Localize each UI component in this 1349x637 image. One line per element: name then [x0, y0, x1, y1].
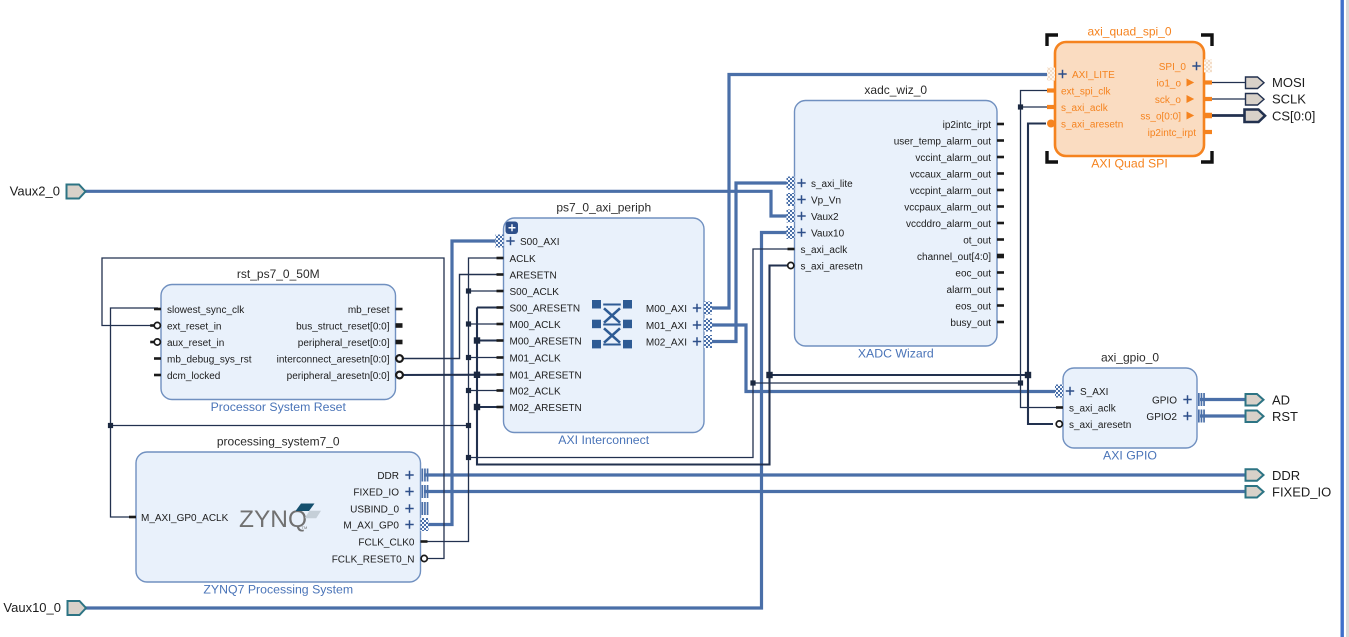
pin M01_ACLK — [497, 356, 504, 359]
wire FCLK_CLK0 branch M00_ACLK — [469, 323, 501, 325]
pin vccaux_alarm_out — [997, 172, 1004, 175]
svg-text:M02_ACLK: M02_ACLK — [510, 386, 561, 397]
svg-text:s_axi_aresetn: s_axi_aresetn — [801, 261, 863, 272]
wire io1_o to MOSI — [1212, 82, 1246, 84]
svg-text:FCLK_RESET0_N: FCLK_RESET0_N — [332, 554, 415, 565]
svg-text:DDR: DDR — [1272, 468, 1300, 483]
pin S00_ACLK — [497, 290, 504, 293]
svg-text:SCLK: SCLK — [1272, 92, 1306, 107]
wire peripheral_aresetn main — [392, 374, 500, 376]
wire M00_AXI to AXI_LITE bus — [707, 75, 1050, 309]
block xadc_wiz_0 XADC Wizard — [795, 101, 998, 347]
svg-text:peripheral_aresetn[0:0]: peripheral_aresetn[0:0] — [287, 371, 390, 382]
svg-text:M01_ARESETN: M01_ARESETN — [510, 370, 582, 381]
pin busy_out — [997, 321, 1004, 324]
svg-text:vccpaux_alarm_out: vccpaux_alarm_out — [904, 202, 991, 213]
svg-text:M01_ACLK: M01_ACLK — [510, 353, 561, 364]
svg-text:Vaux10: Vaux10 — [811, 228, 845, 239]
pin M01_AXI — [704, 319, 712, 332]
pin ARESETN — [497, 273, 504, 276]
pin Vaux2 — [787, 210, 795, 223]
wire interconnect_aresetn net — [392, 275, 500, 359]
svg-text:M00_ARESETN: M00_ARESETN — [510, 336, 582, 347]
wire ss_o to CS — [1212, 114, 1244, 117]
block ps7_0_axi_periph AXI Interconnect — [504, 218, 705, 433]
wire peripheral_aresetn branch M02_ARESETN — [477, 406, 500, 408]
pin mb_reset — [396, 308, 403, 311]
svg-text:M02_AXI: M02_AXI — [646, 337, 687, 348]
wire GPIO to AD bus — [1200, 398, 1246, 401]
pin AXI_LITE — [1047, 68, 1055, 81]
svg-text:s_axi_lite: s_axi_lite — [811, 179, 853, 190]
svg-text:FIXED_IO: FIXED_IO — [353, 487, 399, 498]
wire FCLK_CLK0 branch M01_ACLK — [469, 357, 501, 359]
svg-text:ext_reset_in: ext_reset_in — [167, 321, 221, 332]
wire Vaux2_0 net — [84, 191, 795, 216]
wire FCLK_CLK0 branch to gpio and spi clocks — [753, 91, 1048, 384]
pin M01_ARESETN — [497, 373, 504, 376]
svg-text:ps7_0_axi_periph: ps7_0_axi_periph — [556, 201, 651, 215]
svg-text:vccaux_alarm_out: vccaux_alarm_out — [910, 169, 991, 180]
svg-text:s_axi_aresetn: s_axi_aresetn — [1069, 420, 1131, 431]
svg-text:Vaux2_0: Vaux2_0 — [10, 184, 60, 199]
pin mb_debug_sys_rst — [154, 357, 161, 360]
wire peripheral_aresetn branch M00_ARESETN — [477, 339, 500, 341]
svg-text:rst_ps7_0_50M: rst_ps7_0_50M — [237, 267, 320, 281]
svg-text:CS[0:0]: CS[0:0] — [1272, 109, 1315, 124]
pin slowest_sync_clk — [154, 308, 161, 311]
pin DDR — [422, 469, 424, 482]
svg-text:FIXED_IO: FIXED_IO — [1272, 484, 1331, 499]
selection corner markers — [1047, 35, 1058, 46]
port SCLK — [1246, 94, 1265, 106]
pin ext_reset_in — [150, 324, 154, 327]
svg-text:AXI GPIO: AXI GPIO — [1103, 449, 1157, 463]
pin M00_AXI — [704, 302, 712, 315]
crossbar icon — [592, 300, 601, 309]
wire sck_o to SCLK — [1212, 98, 1246, 100]
pin s_axi_aresetn — [788, 262, 794, 268]
port Vaux10_0 — [68, 601, 87, 615]
wire FCLK_CLK0 branch M02_ACLK — [469, 390, 501, 392]
pin M00_ARESETN — [497, 339, 504, 342]
pin sck_o — [1204, 97, 1212, 101]
svg-text:ss_o[0:0]: ss_o[0:0] — [1140, 111, 1181, 122]
svg-text:M_AXI_GP0: M_AXI_GP0 — [343, 520, 399, 531]
expand icon — [506, 222, 519, 235]
pin S_AXI — [1055, 385, 1063, 398]
svg-text:USBIND_0: USBIND_0 — [350, 504, 399, 515]
svg-text:M00_AXI: M00_AXI — [646, 304, 687, 315]
pin M02_AXI — [704, 335, 712, 348]
svg-text:interconnect_aresetn[0:0]: interconnect_aresetn[0:0] — [277, 354, 390, 365]
pin s_axi_aclk — [788, 248, 795, 251]
svg-text:xadc_wiz_0: xadc_wiz_0 — [864, 83, 927, 97]
pin s_axi_aresetn — [1047, 120, 1055, 128]
wire FCLK_CLK0 branch S00_ACLK — [469, 290, 501, 292]
port DDR — [1246, 469, 1264, 481]
svg-text:Vaux10_0: Vaux10_0 — [3, 600, 61, 615]
wire peripheral_aresetn branch S00_ARESETN — [477, 306, 500, 308]
wire peripheral_aresetn branch right — [770, 124, 1047, 376]
svg-text:processing_system7_0: processing_system7_0 — [217, 435, 340, 449]
pin M00_ACLK — [497, 323, 504, 326]
svg-text:RST: RST — [1272, 409, 1298, 424]
pin M02_ARESETN — [497, 406, 504, 409]
svg-text:GPIO: GPIO — [1152, 395, 1177, 406]
pin s_axi_lite — [787, 177, 795, 190]
svg-text:M01_AXI: M01_AXI — [646, 321, 687, 332]
block axi_gpio_0 AXI GPIO — [1063, 368, 1197, 448]
svg-text:SPI_0: SPI_0 — [1159, 62, 1187, 73]
pin ext_spi_clk — [1047, 88, 1055, 92]
svg-text:S00_ARESETN: S00_ARESETN — [510, 303, 581, 314]
svg-text:M00_ACLK: M00_ACLK — [510, 320, 561, 331]
pin vccpaux_alarm_out — [997, 205, 1004, 208]
svg-text:XADC Wizard: XADC Wizard — [858, 347, 934, 361]
port CS[0:0] — [1245, 110, 1266, 123]
pin S00_AXI — [496, 235, 504, 248]
svg-text:slowest_sync_clk: slowest_sync_clk — [167, 305, 245, 316]
svg-text:MOSI: MOSI — [1272, 75, 1305, 90]
svg-text:s_axi_aclk: s_axi_aclk — [1069, 403, 1117, 414]
port MOSI — [1246, 77, 1265, 89]
wire FCLK_CLK0 branch left to rst and PS aclk — [111, 425, 469, 427]
svg-text:axi_quad_spi_0: axi_quad_spi_0 — [1087, 25, 1171, 39]
svg-text:mb_debug_sys_rst: mb_debug_sys_rst — [167, 354, 252, 365]
svg-text:ZYNQ7 Processing System: ZYNQ7 Processing System — [203, 583, 353, 597]
svg-text:S00_AXI: S00_AXI — [520, 237, 559, 248]
junction dots FCLK_CLK0 — [466, 288, 471, 293]
svg-text:AXI_LITE: AXI_LITE — [1072, 70, 1115, 81]
svg-text:eoc_out: eoc_out — [955, 268, 991, 279]
svg-text:GPIO2: GPIO2 — [1146, 412, 1177, 423]
wire peripheral_aresetn riser — [477, 266, 790, 465]
wire FCLK_RESET0_N net — [102, 258, 444, 559]
svg-text:axi_gpio_0: axi_gpio_0 — [1101, 351, 1159, 365]
pin io1_o — [1204, 80, 1212, 84]
svg-text:channel_out[4:0]: channel_out[4:0] — [917, 252, 991, 263]
svg-text:vccint_alarm_out: vccint_alarm_out — [915, 153, 991, 164]
pin s_axi_aresetn — [1056, 421, 1062, 427]
svg-text:sck_o: sck_o — [1155, 95, 1182, 106]
pin dcm_locked — [154, 374, 161, 377]
pin FCLK_CLK0 — [421, 540, 428, 543]
svg-text:FCLK_CLK0: FCLK_CLK0 — [358, 537, 415, 548]
pin aux_reset_in — [150, 341, 154, 344]
pin ot_out — [997, 238, 1004, 241]
svg-text:bus_struct_reset[0:0]: bus_struct_reset[0:0] — [296, 321, 390, 332]
svg-text:AXI Interconnect: AXI Interconnect — [558, 433, 649, 447]
svg-text:AXI Quad SPI: AXI Quad SPI — [1091, 157, 1168, 171]
block rst_ps7_0_50M Processor System Reset — [161, 285, 396, 400]
svg-text:ACLK: ACLK — [510, 254, 536, 265]
svg-text:s_axi_aclk: s_axi_aclk — [1061, 103, 1109, 114]
svg-text:dcm_locked: dcm_locked — [167, 371, 220, 382]
wire Vaux10_0 net — [85, 233, 795, 609]
pin ip2intc_irpt — [1204, 130, 1212, 134]
svg-text:s_axi_aresetn: s_axi_aresetn — [1061, 119, 1123, 130]
svg-text:mb_reset: mb_reset — [348, 305, 390, 316]
svg-text:eos_out: eos_out — [955, 301, 991, 312]
svg-text:Processor System Reset: Processor System Reset — [211, 400, 347, 414]
window border scrollbar — [1341, 0, 1344, 637]
pin GPIO2 — [1198, 410, 1200, 423]
port FIXED_IO — [1246, 486, 1264, 498]
pin s_axi_aclk — [1056, 406, 1063, 409]
svg-text:s_axi_aclk: s_axi_aclk — [801, 245, 849, 256]
svg-text:Vaux2: Vaux2 — [811, 212, 839, 223]
svg-text:TM: TM — [302, 525, 308, 530]
pin ip2intc_irpt — [997, 123, 1004, 126]
pin GPIO — [1198, 393, 1200, 406]
pin vccddro_alarm_out — [997, 222, 1004, 225]
wire FIXED_IO bus — [424, 490, 1246, 493]
pin S00_ARESETN — [497, 306, 504, 309]
svg-text:M02_ARESETN: M02_ARESETN — [510, 403, 582, 414]
svg-text:AD: AD — [1272, 392, 1290, 407]
svg-text:S_AXI: S_AXI — [1080, 387, 1108, 398]
wire FCLK_CLK0 branch right channel — [469, 249, 791, 458]
pin vccpint_alarm_out — [997, 189, 1004, 192]
pin alarm_out — [997, 288, 1004, 291]
port Vaux2_0 — [67, 185, 86, 199]
svg-text:aux_reset_in: aux_reset_in — [167, 338, 224, 349]
svg-text:alarm_out: alarm_out — [947, 285, 992, 296]
pin FIXED_IO — [422, 485, 424, 498]
wire M_AXI_GP0 to S00_AXI bus — [424, 241, 500, 525]
junction dots peripheral_aresetn — [474, 337, 480, 343]
pin M_AXI_GP0 — [421, 518, 429, 531]
svg-text:DDR: DDR — [377, 471, 399, 482]
pin eos_out — [997, 304, 1004, 307]
svg-text:M_AXI_GP0_ACLK: M_AXI_GP0_ACLK — [141, 513, 229, 524]
svg-text:ip2intc_irpt: ip2intc_irpt — [1148, 128, 1197, 139]
pin vccint_alarm_out — [997, 156, 1004, 159]
svg-text:vccpint_alarm_out: vccpint_alarm_out — [910, 186, 991, 197]
pin bus_struct_reset[0:0] — [396, 323, 403, 328]
pin M_AXI_GP0_ACLK — [129, 516, 136, 519]
pin Vp_Vn — [787, 193, 795, 206]
wire GPIO2 to RST bus — [1200, 414, 1246, 417]
pin channel_out[4:0] — [997, 254, 1004, 259]
svg-text:ip2intc_irpt: ip2intc_irpt — [943, 120, 992, 131]
pin interconnect_aresetn[0:0] — [396, 355, 403, 362]
wire FCLK_CLK0 main — [424, 258, 500, 542]
pin ss_o[0:0] — [1204, 113, 1212, 119]
block axi_quad_spi_0 AXI Quad SPI — [1055, 42, 1204, 156]
svg-text:Vp_Vn: Vp_Vn — [811, 195, 841, 206]
svg-text:busy_out: busy_out — [950, 318, 991, 329]
port RST — [1246, 411, 1264, 423]
svg-text:user_temp_alarm_out: user_temp_alarm_out — [894, 136, 991, 147]
pin eoc_out — [997, 271, 1004, 274]
svg-text:ot_out: ot_out — [963, 235, 991, 246]
port AD — [1246, 394, 1264, 406]
pin peripheral_reset[0:0] — [396, 340, 403, 345]
pin FCLK_RESET0_N — [421, 555, 427, 561]
svg-text:vccddro_alarm_out: vccddro_alarm_out — [906, 219, 991, 230]
wire M01_AXI to GPIO S_AXI bus — [707, 325, 1058, 392]
pin SPI_0 — [1204, 60, 1212, 73]
pin USBIND_0 — [422, 502, 424, 515]
pin M02_ACLK — [497, 389, 504, 392]
pin user_temp_alarm_out — [997, 139, 1004, 142]
svg-text:S00_ACLK: S00_ACLK — [510, 287, 560, 298]
pin s_axi_aclk — [1047, 105, 1055, 109]
pin ACLK — [497, 257, 504, 260]
svg-text:io1_o: io1_o — [1157, 78, 1182, 89]
block processing_system7_0 ZYNQ7 Processing System — [136, 452, 421, 582]
wire DDR bus — [424, 473, 1246, 476]
svg-text:peripheral_reset[0:0]: peripheral_reset[0:0] — [298, 338, 390, 349]
pin peripheral_aresetn[0:0] — [396, 372, 403, 379]
svg-text:ARESETN: ARESETN — [510, 270, 557, 281]
wire M02_AXI to XADC s_axi_lite bus — [707, 183, 790, 342]
pin Vaux10 — [787, 226, 795, 239]
svg-text:ext_spi_clk: ext_spi_clk — [1061, 86, 1111, 97]
